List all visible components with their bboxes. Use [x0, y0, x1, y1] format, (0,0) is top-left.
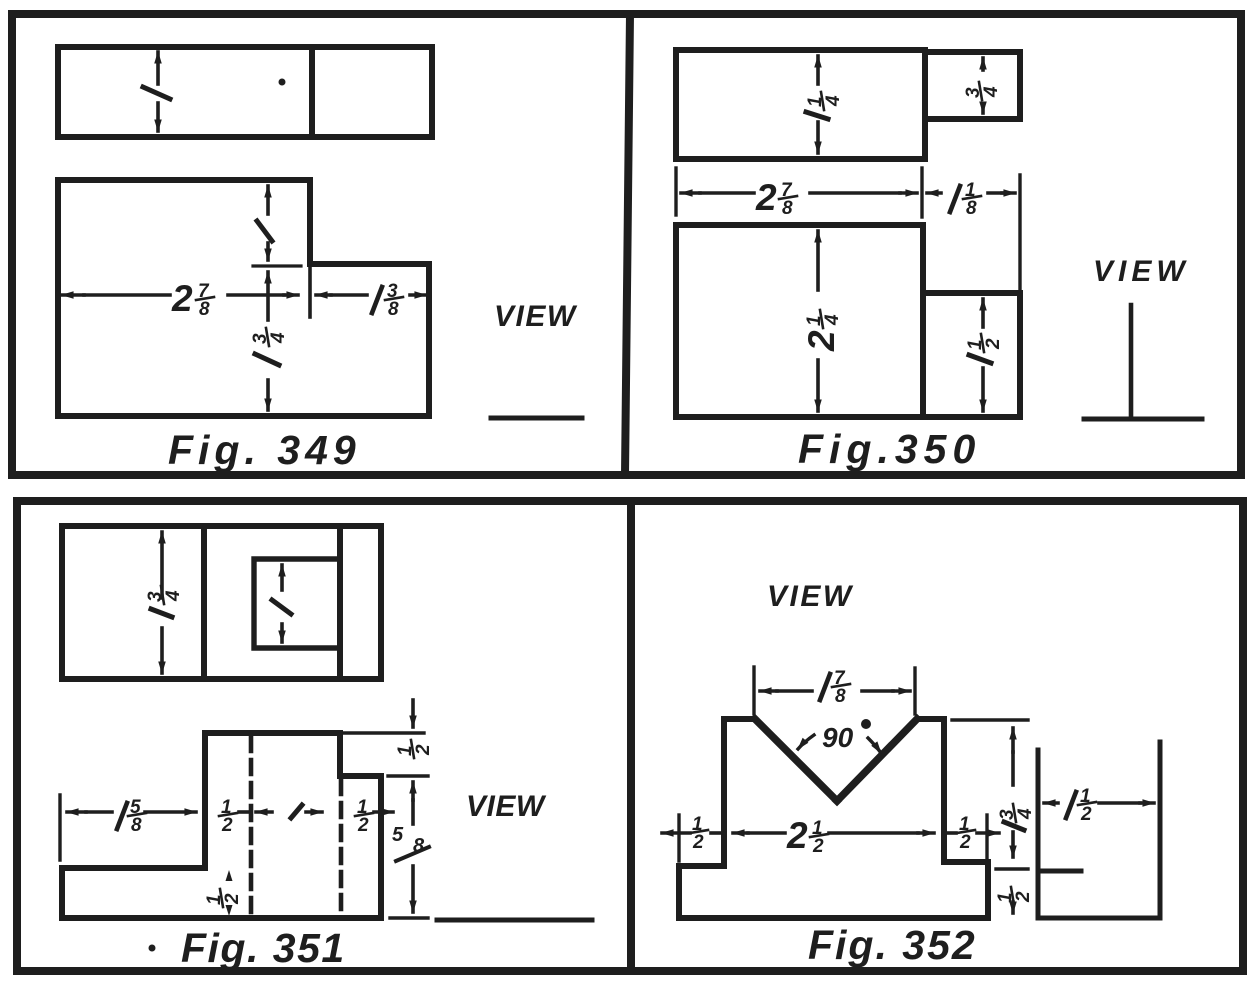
Fig.351 answer line — [437, 918, 592, 923]
Fig.350 extension lines for width dims — [676, 168, 1020, 289]
svg-text:2: 2 — [812, 836, 824, 857]
Fig.351 top view outline — [62, 526, 381, 679]
Fig.349 answer line — [491, 416, 582, 421]
panel border row 2 (Figs 351-352) — [17, 501, 1243, 971]
panel border row 1 (Figs 349-350) — [12, 14, 1241, 475]
svg-text:8: 8 — [388, 299, 399, 320]
svg-text:2: 2 — [959, 832, 971, 853]
Fig.351 left extension line — [58, 795, 61, 860]
Fig.350 caption — [798, 426, 981, 472]
Fig.352 dimension 1 1/2 (answer view) — [1044, 786, 1154, 825]
svg-text:2: 2 — [1013, 891, 1034, 903]
Fig.352 left foot extension line — [677, 815, 680, 861]
svg-text:5: 5 — [392, 824, 404, 846]
Fig.352 VIEW label — [767, 580, 854, 613]
svg-text:2: 2 — [222, 893, 243, 905]
svg-text:2: 2 — [983, 338, 1004, 350]
Fig.350 dimension 1 1/8 — [927, 180, 1015, 219]
Fig.351 dimension 1/2 (right upper) — [395, 700, 434, 758]
Fig.350 VIEW label — [1093, 255, 1190, 288]
panel divider row 2 — [627, 501, 635, 971]
Fig.350 dimension 3/4 (top view) — [963, 58, 1002, 113]
Fig.352 answer partial view lines — [1038, 742, 1160, 918]
svg-text:8: 8 — [131, 815, 142, 836]
Fig.351 dimension 1/2 (first) — [219, 797, 248, 836]
Fig.352 V groove emphasis strokes — [755, 719, 917, 801]
Fig.351 mid-right extension line — [388, 774, 428, 777]
Fig.351 caption — [181, 925, 346, 971]
Fig.351 dimension 1 (top view boss) — [272, 565, 291, 642]
Fig.351 hidden edge dashed line right — [339, 780, 344, 916]
Fig.351 dimension 1 (front view) — [256, 805, 322, 818]
Fig.349 top view outline — [58, 47, 432, 137]
Fig.352 dimension 1/2 (right lower) — [995, 887, 1034, 913]
Fig.351 dimension 1 5/8 — [67, 797, 196, 836]
Fig.350 top view outline — [676, 50, 1020, 159]
Fig.351 front view outline — [62, 733, 381, 918]
Fig.349 dimension 1 (top view) — [143, 52, 170, 131]
svg-text:2: 2 — [171, 278, 193, 319]
Fig.352 dimension 1/2 (right) — [948, 814, 999, 853]
svg-text:8: 8 — [782, 198, 793, 219]
Fig.352 extension lines for 1 7/8 — [754, 667, 915, 714]
svg-text:8: 8 — [835, 686, 846, 707]
svg-text:VIEW: VIEW — [466, 790, 547, 823]
svg-text:8: 8 — [199, 299, 210, 320]
Fig.351 dimension 1/2 (second) — [355, 797, 393, 836]
Fig.352 dimension 2 1/2 — [733, 815, 934, 857]
Fig.351 bottom-right extension line — [390, 916, 428, 919]
Fig.352 caption — [808, 922, 977, 968]
Fig.350 answer horizontal line — [1084, 417, 1202, 422]
Fig.349 step extension line left — [253, 264, 301, 267]
svg-text:2: 2 — [786, 815, 808, 856]
Fig.352 dimension 1 3/4 (right) — [997, 728, 1036, 857]
svg-text:2: 2 — [413, 744, 434, 756]
Fig.350 dimension 1 1/2 (front view) — [965, 299, 1004, 411]
Fig.349 front view outline — [58, 180, 429, 416]
Fig.352 dimension 1 7/8 — [760, 668, 910, 707]
svg-text:VIEW: VIEW — [767, 580, 854, 613]
Fig.351 dimension 5/8 (right) — [392, 782, 429, 912]
Fig.349 dimension 1 3/8 — [316, 281, 426, 320]
svg-text:VIEW: VIEW — [1093, 255, 1190, 288]
Fig.351 caption dot — [149, 945, 156, 952]
svg-text:2: 2 — [801, 330, 842, 352]
svg-text:2: 2 — [755, 177, 777, 218]
svg-text:Fig. 349: Fig. 349 — [168, 427, 361, 473]
svg-text:8: 8 — [413, 835, 425, 857]
svg-text:8: 8 — [966, 198, 977, 219]
svg-text:4: 4 — [981, 86, 1002, 98]
Fig.349 VIEW label — [494, 300, 578, 333]
Fig.349 dimension 1 (front view) — [257, 186, 272, 260]
Fig.351 VIEW label — [466, 790, 547, 823]
Fig.352 dimension 1/2 (left) — [662, 814, 722, 853]
svg-text:90: 90 — [822, 722, 854, 753]
svg-text:4: 4 — [268, 332, 289, 344]
Fig.351 top-right extension line — [344, 731, 424, 734]
Fig.349 stray dot — [279, 79, 286, 86]
svg-text:4: 4 — [823, 95, 844, 107]
Fig.349 step corner extension down — [308, 264, 312, 317]
panel divider row 1 — [625, 14, 630, 475]
Fig.349 dimension 1 3/4 (vertical) — [250, 272, 289, 410]
Fig.352 foot-top extension line right — [996, 867, 1028, 870]
Fig.352 top-right extension line — [952, 718, 1028, 721]
svg-text:4: 4 — [163, 590, 184, 602]
Fig.350 dimension 2 1/4 (front view) — [801, 231, 843, 411]
Fig.351 hidden edge dashed line left — [249, 737, 254, 916]
svg-text:Fig.350: Fig.350 — [798, 426, 981, 472]
Fig.351 dimension 1/2 (lower left) — [204, 870, 243, 916]
svg-text:2: 2 — [357, 815, 369, 836]
svg-text:VIEW: VIEW — [494, 300, 578, 333]
Fig.350 dimension 1 1/4 (top view) — [805, 56, 844, 153]
Fig.351 top view inner boss outline — [254, 559, 340, 648]
Fig.352 right foot extension line — [985, 815, 988, 861]
svg-text:2: 2 — [692, 832, 704, 853]
svg-text:Fig. 352: Fig. 352 — [808, 922, 977, 968]
Fig.349 dimension 2 7/8 — [62, 278, 298, 320]
svg-text:Fig. 351: Fig. 351 — [181, 925, 346, 971]
Fig.349 caption — [168, 427, 361, 473]
Fig.350 answer vertical line — [1129, 305, 1134, 416]
Fig.351 dimension 1 3/4 (top view) — [145, 532, 184, 673]
svg-text:4: 4 — [1015, 808, 1036, 820]
Fig.350 front view outline — [676, 225, 1020, 417]
svg-text:2: 2 — [1080, 804, 1092, 825]
svg-text:4: 4 — [822, 314, 843, 326]
Fig.350 dimension 2 7/8 — [681, 177, 917, 219]
Fig.352 V-block outline — [679, 719, 988, 918]
svg-text:2: 2 — [221, 815, 233, 836]
Fig.352 label 90 degrees — [798, 719, 881, 753]
